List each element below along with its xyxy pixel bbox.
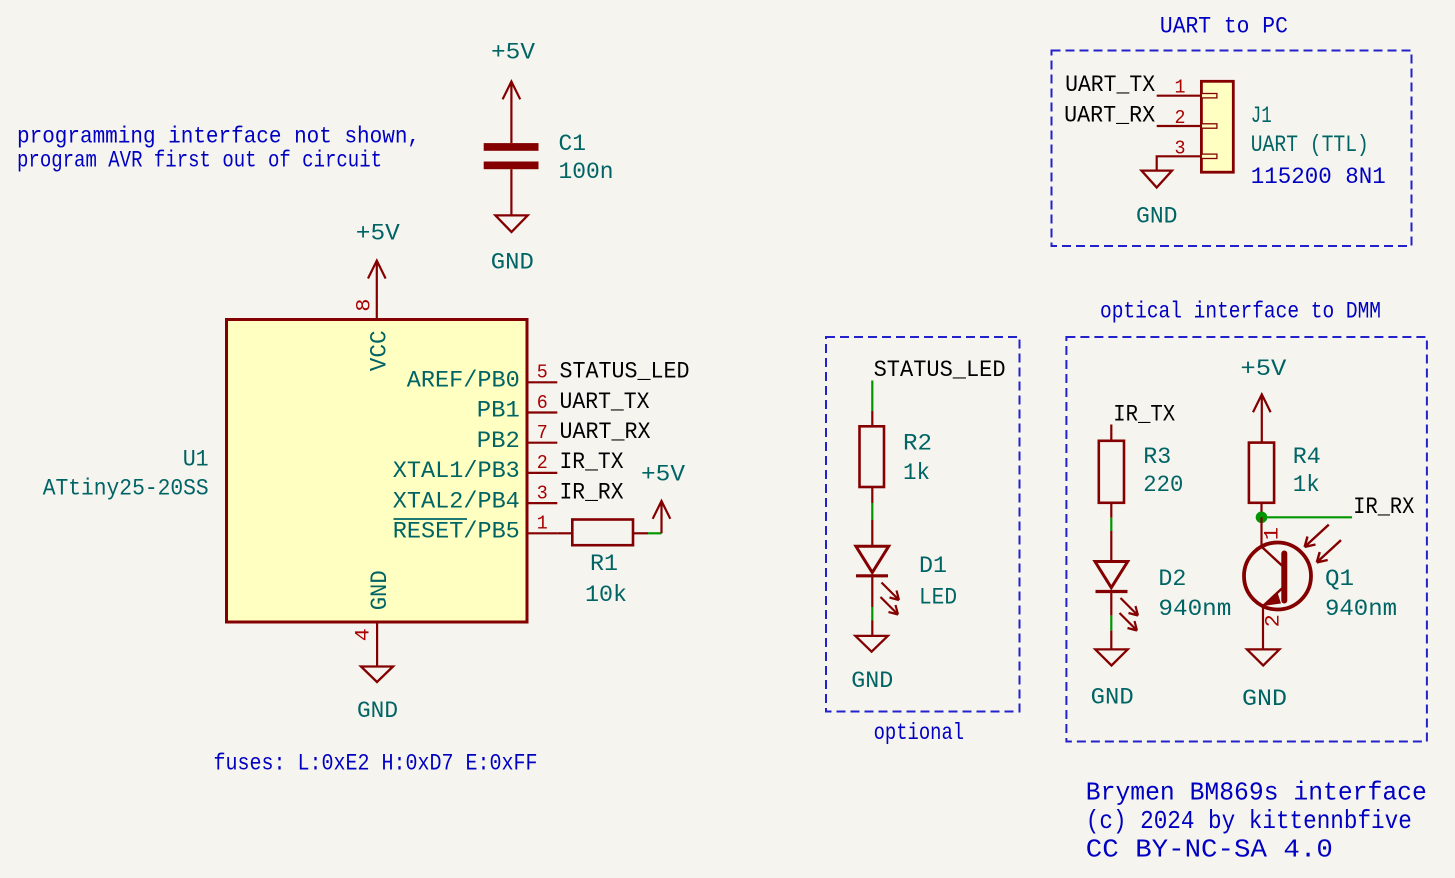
power +5V (above R4)	[1253, 394, 1271, 442]
wire C1 to ground	[510, 169, 512, 215]
svg-text:220: 220	[1143, 472, 1183, 498]
svg-text:1k: 1k	[903, 460, 930, 486]
svg-text:PB2: PB2	[477, 428, 520, 454]
wire label to R2	[871, 381, 873, 412]
pin 6 PB1	[477, 392, 558, 424]
ground (D1)	[855, 636, 887, 652]
svg-text:2: 2	[1175, 107, 1186, 129]
svg-text:5: 5	[537, 362, 548, 384]
svg-text:+5V: +5V	[641, 462, 685, 488]
svg-text:program AVR first out of circu: program AVR first out of circuit	[17, 147, 382, 173]
resistor R3	[1099, 441, 1184, 503]
pin 1 RESET/PB5	[393, 513, 558, 545]
pin 7 PB2	[477, 422, 558, 454]
svg-text:+5V: +5V	[491, 40, 535, 66]
J1 pin 2 wire	[1157, 125, 1202, 127]
svg-text:PB1: PB1	[477, 398, 520, 424]
dashed box optical interface	[1066, 337, 1427, 742]
svg-text:+5V: +5V	[1240, 356, 1286, 382]
svg-text:programming interface not show: programming interface not shown,	[17, 124, 420, 150]
svg-text:XTAL2/PB4: XTAL2/PB4	[393, 488, 520, 514]
svg-text:D1: D1	[919, 553, 947, 579]
power +5V (above U1 pin 8)	[368, 261, 386, 320]
svg-text:UART_TX: UART_TX	[1065, 72, 1155, 98]
LED D1	[856, 546, 899, 614]
J1 pin 2 tab	[1201, 124, 1217, 128]
ground (below U1)	[361, 667, 393, 683]
svg-text:fuses: L:0xE2 H:0xD7 E:0xFF: fuses: L:0xE2 H:0xD7 E:0xFF	[214, 751, 538, 777]
svg-text:Q1: Q1	[1325, 566, 1354, 592]
svg-text:AREF/PB0: AREF/PB0	[407, 368, 520, 394]
capacitor C1	[484, 131, 614, 185]
junction node IR_RX	[1256, 512, 1268, 524]
svg-text:CC BY-NC-SA 4.0: CC BY-NC-SA 4.0	[1086, 835, 1333, 865]
pin 3 XTAL2/PB4	[393, 482, 558, 514]
pin 5 AREF/PB0	[407, 362, 558, 394]
svg-text:2: 2	[537, 452, 548, 474]
svg-text:IR_RX: IR_RX	[1353, 494, 1414, 520]
svg-text:940nm: 940nm	[1158, 596, 1231, 622]
pin 2 XTAL1/PB3	[393, 452, 558, 484]
ground (D2)	[1095, 649, 1127, 665]
pin 4 wire (U1 bottom)	[376, 622, 378, 667]
svg-text:UART_TX: UART_TX	[560, 389, 650, 415]
svg-text:4: 4	[353, 628, 376, 641]
svg-text:RESET/PB5: RESET/PB5	[393, 519, 520, 545]
dashed box UART to PC	[1052, 51, 1412, 247]
connector J1 body	[1201, 81, 1233, 172]
wire R1 right stub	[633, 532, 648, 534]
svg-text:IR_TX: IR_TX	[560, 449, 624, 475]
wire green R1 to +5V	[648, 532, 662, 534]
wire D2 to ground	[1110, 592, 1112, 616]
svg-text:STATUS_LED: STATUS_LED	[560, 359, 690, 385]
svg-text:UART to PC: UART to PC	[1160, 14, 1288, 40]
svg-text:J1: J1	[1251, 103, 1272, 129]
wire R2 to D1	[871, 487, 873, 503]
svg-text:STATUS_LED: STATUS_LED	[874, 357, 1006, 383]
svg-text:optical interface to DMM: optical interface to DMM	[1100, 299, 1381, 325]
svg-text:(c) 2024 by kittennbfive: (c) 2024 by kittennbfive	[1086, 806, 1412, 836]
svg-text:3: 3	[537, 482, 548, 504]
wire Q1 to ground	[1262, 606, 1264, 649]
svg-text:UART (TTL): UART (TTL)	[1251, 132, 1369, 158]
svg-text:GND: GND	[367, 570, 393, 610]
svg-text:1k: 1k	[1293, 472, 1320, 498]
resistor R2	[860, 426, 933, 487]
svg-text:2: 2	[1263, 614, 1286, 627]
svg-text:D2: D2	[1158, 566, 1186, 592]
svg-text:C1: C1	[559, 131, 587, 157]
svg-text:GND: GND	[851, 668, 893, 694]
svg-text:8: 8	[354, 299, 377, 312]
op-amp U1 body (IC ATtiny25)	[227, 320, 528, 623]
svg-text:GND: GND	[357, 698, 398, 724]
svg-text:GND: GND	[1091, 685, 1134, 711]
svg-text:U1: U1	[183, 447, 209, 473]
svg-text:1: 1	[1175, 77, 1186, 99]
svg-text:IR_RX: IR_RX	[560, 479, 624, 505]
svg-text:XTAL1/PB3: XTAL1/PB3	[393, 458, 520, 484]
svg-text:940nm: 940nm	[1325, 596, 1397, 622]
svg-text:optional: optional	[874, 720, 965, 746]
J1 pin 1 tab	[1201, 94, 1217, 98]
svg-text:ATtiny25-20SS: ATtiny25-20SS	[43, 476, 209, 502]
svg-text:GND: GND	[1242, 686, 1287, 712]
svg-text:100n: 100n	[559, 159, 614, 185]
dashed box optional	[826, 337, 1020, 712]
note text programming interface	[17, 124, 420, 174]
svg-text:6: 6	[537, 392, 548, 414]
wire D1 to ground	[871, 576, 873, 607]
svg-text:10k: 10k	[585, 582, 627, 608]
svg-text:R1: R1	[590, 551, 618, 577]
wire junction to IR_RX label	[1262, 516, 1353, 518]
ground (J1)	[1142, 171, 1173, 188]
LED D2	[1095, 562, 1138, 631]
transistor Q1 phototransistor	[1244, 525, 1341, 610]
ground (below C1)	[495, 215, 527, 232]
wire label to R3	[1110, 425, 1112, 441]
note title Brymen	[1086, 778, 1427, 865]
resistor R1	[572, 520, 633, 609]
svg-text:LED: LED	[919, 585, 957, 611]
wire R3 to D2	[1110, 503, 1112, 518]
svg-text:1: 1	[537, 513, 548, 535]
svg-text:GND: GND	[491, 250, 534, 276]
wire R4 to junction	[1260, 503, 1262, 518]
svg-text:R2: R2	[903, 431, 932, 457]
wire junction to Q1	[1260, 517, 1262, 547]
J1 pin 3 tab	[1201, 154, 1217, 158]
power +5V (right of R1)	[653, 501, 671, 533]
wire pin1 to R1	[557, 532, 572, 534]
ground (Q1)	[1247, 649, 1279, 665]
svg-text:GND: GND	[1136, 204, 1178, 230]
svg-text:3: 3	[1175, 137, 1186, 159]
svg-text:+5V: +5V	[356, 221, 400, 247]
svg-text:Brymen BM869s interface: Brymen BM869s interface	[1086, 778, 1427, 808]
svg-text:7: 7	[537, 422, 548, 444]
svg-text:UART_RX: UART_RX	[560, 419, 651, 445]
svg-text:IR_TX: IR_TX	[1113, 402, 1175, 428]
svg-text:R3: R3	[1143, 444, 1171, 470]
J1 pin 3 wire to ground	[1157, 156, 1202, 170]
svg-text:115200 8N1: 115200 8N1	[1251, 164, 1386, 190]
svg-text:VCC: VCC	[367, 330, 393, 371]
svg-text:UART_RX: UART_RX	[1064, 102, 1155, 128]
svg-text:R4: R4	[1293, 444, 1321, 470]
power +5V (above C1)	[503, 82, 521, 144]
svg-text:1: 1	[1262, 527, 1285, 540]
resistor R4	[1249, 443, 1321, 503]
J1 pin 1 wire	[1157, 95, 1202, 97]
